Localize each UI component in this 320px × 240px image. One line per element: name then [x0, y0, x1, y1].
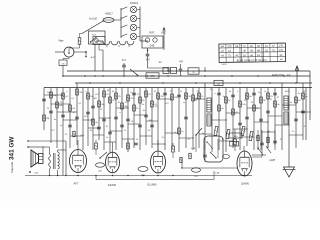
- fuse Si2: [171, 68, 177, 74]
- svg-text:(1M(4): (1M(4): [241, 182, 249, 186]
- svg-text:BL 4B 1A 8E 47 2K 5A 18 4: BL 4B 1A 8E 47 2K 5A 18 4: [237, 59, 267, 62]
- switch box N: [188, 68, 199, 74]
- capacitor C30: [259, 118, 263, 120]
- wire V29: [218, 88, 220, 151]
- wire grid row drop: [181, 158, 183, 168]
- capacitor C11: [91, 105, 95, 107]
- wire V36: [267, 88, 269, 149]
- resistor R25: [218, 105, 221, 111]
- wire V24: [185, 88, 187, 149]
- resistor slanted RS3: [241, 126, 245, 135]
- wire V11: [103, 88, 105, 151]
- antenna coil oval: [103, 18, 114, 23]
- wire V19: [151, 88, 153, 149]
- wire left vertical: [65, 141, 67, 176]
- resistor R24: [198, 93, 201, 99]
- svg-text:≈AMP: ≈AMP: [269, 159, 276, 162]
- mains plug arrow: [284, 167, 295, 177]
- link wire L35: [63, 119, 77, 121]
- wire V41: [302, 83, 304, 140]
- small box on bus 3: [214, 80, 223, 85]
- resistor R5: [69, 105, 72, 111]
- wire V15: [127, 88, 129, 153]
- link wire L22: [212, 119, 226, 121]
- link wire L31: [275, 124, 289, 126]
- wire jack cap down: [68, 57, 70, 59]
- wire above V2: [112, 142, 114, 152]
- resistor R9: [98, 101, 101, 107]
- svg-text:1M: 1M: [93, 98, 96, 100]
- trimmer capacitor T3: [130, 24, 136, 30]
- capacitor C32: [273, 92, 277, 94]
- wire V22: [171, 88, 173, 151]
- wire filter row to bus: [147, 56, 149, 68]
- link wire L11: [122, 138, 134, 140]
- wire V16: [133, 88, 135, 149]
- capacitor C20: [144, 114, 148, 116]
- wire right column d: [274, 130, 276, 150]
- wire coil to selector: [114, 19, 121, 21]
- wire TA down: [98, 45, 100, 51]
- wire V32: [239, 88, 241, 151]
- svg-text:1Ω: 1Ω: [217, 84, 220, 86]
- wire filter bottom cap: [147, 48, 149, 54]
- link wire L20: [193, 98, 205, 100]
- wire S3 down: [195, 135, 197, 152]
- link wire L10: [116, 107, 128, 109]
- svg-text:175: 175: [279, 44, 284, 47]
- antenna lead-in: [82, 21, 104, 34]
- resistor R26: [225, 97, 228, 103]
- oscillator coil humps: [103, 41, 134, 45]
- loudspeaker cone: [31, 150, 39, 167]
- IF transformer Tr2 secondary: [284, 112, 288, 124]
- capacitor C28: [245, 116, 249, 118]
- wire band box down: [94, 44, 96, 71]
- capacitor C12: [97, 126, 101, 128]
- svg-text:175: 175: [227, 45, 232, 48]
- selector box: [204, 136, 223, 162]
- link wire L9: [110, 130, 122, 132]
- svg-text:EAT.: EAT.: [149, 31, 155, 35]
- screen resistor of V2: [127, 143, 130, 149]
- capacitor C13: [102, 118, 106, 120]
- wire V3: [56, 88, 58, 149]
- resistor R27: [232, 109, 235, 115]
- dot label bottom left: [29, 171, 31, 173]
- svg-text:Wae: Wae: [58, 40, 64, 43]
- resistor R14: [127, 95, 130, 101]
- capacitor C23: [177, 94, 181, 96]
- bus wire 4: [44, 87, 312, 89]
- IF transformer Tr1 secondary: [207, 114, 211, 126]
- resistor above V1: [73, 131, 75, 137]
- capacitor C29: [252, 92, 256, 94]
- svg-text:1M: 1M: [174, 97, 177, 99]
- capacitor 417 under filter: [146, 53, 150, 55]
- link wire L3: [57, 111, 77, 113]
- resistor R17: [145, 91, 148, 97]
- svg-text:4,4B: 4,4B: [191, 148, 196, 150]
- bus junction dots: [62, 75, 64, 77]
- link wire L32: [282, 104, 296, 106]
- resistor above V4: [234, 139, 237, 145]
- svg-text:1M: 1M: [53, 95, 56, 97]
- link wire L27: [247, 107, 261, 109]
- EAT arrow wire: [163, 28, 165, 50]
- bus tick at 205: [204, 67, 206, 71]
- wave band switch box: [89, 31, 106, 44]
- resistor R52: [267, 137, 269, 143]
- antenna jack socket: [64, 47, 74, 57]
- wire above V1: [77, 140, 79, 150]
- wire Wa to jack: [79, 45, 81, 49]
- svg-text:AF7: AF7: [74, 182, 79, 186]
- capacitor C27: [238, 122, 242, 124]
- resistor R10: [103, 91, 106, 97]
- svg-text:EF/M0: EF/M0: [108, 183, 116, 187]
- IF transformer Tr1 primary: [207, 98, 211, 112]
- capacitor C26: [231, 94, 235, 96]
- svg-text:Ant.150: Ant.150: [89, 18, 98, 21]
- wire V5: [69, 88, 71, 149]
- resistor R4: [62, 93, 65, 99]
- resistor R18: [151, 101, 154, 107]
- capacitor C34: [301, 110, 305, 112]
- wire V39: [288, 88, 290, 131]
- resistor R19: [157, 93, 160, 99]
- grid cap coupling V3: [134, 142, 138, 144]
- wire V38: [281, 83, 283, 150]
- wire V12: [109, 88, 111, 153]
- link wire L6: [93, 134, 104, 136]
- trimmer capacitor T4: [130, 33, 136, 39]
- capacitor C22: [163, 92, 167, 94]
- arrow to rectifier: [296, 67, 298, 84]
- link wire L36: [70, 135, 83, 137]
- resistor slanted RS1: [214, 126, 218, 135]
- wire selector to coil row: [140, 40, 148, 42]
- wire V40: [295, 88, 297, 149]
- capacitor C24: [184, 116, 188, 118]
- resistor R20: [171, 94, 174, 100]
- selector contact arm 1: [121, 7, 127, 10]
- label: set name Imperial 341 GW: [9, 136, 16, 173]
- trimmer capacitor T1: [130, 6, 136, 12]
- capacitor C25: [217, 92, 221, 94]
- svg-text:341 GW: 341 GW: [9, 136, 16, 160]
- link wire L28: [254, 121, 268, 123]
- wire Wa top: [79, 34, 81, 38]
- wire V28: [211, 88, 213, 153]
- tube socket data table: [219, 43, 286, 62]
- resistor Wa: [78, 38, 81, 45]
- wire V4: [62, 88, 64, 176]
- resistor box on bus 570: [146, 73, 159, 78]
- wire tube4 top: [243, 146, 245, 151]
- capacitor C5: [42, 98, 46, 100]
- wire V27: [204, 83, 206, 150]
- loudspeaker magnet: [39, 154, 44, 164]
- wire grid row: [182, 167, 237, 169]
- selector rail right: [139, 7, 141, 42]
- resistor R13: [121, 103, 124, 109]
- wire V31: [232, 88, 234, 149]
- link wire L1: [44, 94, 63, 96]
- selector rail left: [120, 8, 122, 38]
- link wire L18: [165, 132, 179, 134]
- svg-text:1,4B: 1,4B: [215, 173, 220, 175]
- tube V2 EBF: [106, 152, 120, 173]
- wire V2: [50, 88, 52, 144]
- resistor R3: [56, 102, 59, 108]
- resistor R33: [274, 101, 277, 107]
- selector box contact 1: [207, 142, 213, 149]
- link wire L2: [51, 103, 70, 105]
- link wire L14: [140, 135, 152, 137]
- wire right column a: [257, 130, 259, 150]
- wire right column b: [261, 130, 263, 152]
- resistor R2: [43, 115, 46, 121]
- resistor R8: [92, 119, 95, 125]
- chassis dots: [49, 175, 50, 176]
- wire V34: [253, 88, 255, 151]
- wire V17: [139, 88, 141, 151]
- svg-text:5&1B: 5&1B: [221, 64, 227, 66]
- switch right of V4: [258, 148, 263, 155]
- link wire L23: [219, 140, 233, 142]
- resistor R15: [133, 105, 136, 111]
- resistor R28: [239, 101, 242, 107]
- IF transformer Tr2 primary: [284, 96, 288, 110]
- wire jack right: [74, 51, 86, 53]
- wire V37: [274, 88, 276, 146]
- svg-text:Imperial: Imperial: [10, 162, 14, 173]
- right edge wire 2: [305, 88, 307, 141]
- coupling capacitor C50: [203, 154, 207, 156]
- link wire L29: [261, 131, 275, 133]
- wire V1: [43, 88, 45, 131]
- wire V25: [192, 88, 194, 151]
- oval under selector: [192, 168, 201, 172]
- link wire L12: [128, 123, 140, 125]
- capacitor C51: [260, 142, 264, 144]
- wire V8: [87, 88, 89, 147]
- capacitor C8: [68, 124, 72, 126]
- capacitor C14: [108, 131, 112, 133]
- svg-text:A7S: A7S: [81, 134, 85, 137]
- resistor R23: [192, 95, 195, 101]
- link wire L5: [88, 127, 99, 129]
- oval cap near V3: [138, 167, 148, 172]
- resistor right of V3: [172, 146, 175, 152]
- capacitor C2 on bus: [122, 64, 126, 66]
- link wire L13: [134, 114, 146, 116]
- link wire L21: [199, 133, 212, 135]
- resistor R29: [246, 93, 249, 99]
- resistor R11: [109, 97, 112, 103]
- link wire L4: [83, 119, 93, 121]
- svg-text:570: 570: [151, 75, 156, 78]
- small resistor V3 anode: [180, 158, 182, 163]
- chassis bottom wire: [25, 175, 252, 177]
- lower link wire: [96, 179, 214, 181]
- capacitor C52: [273, 140, 277, 142]
- wire speaker mid: [28, 146, 44, 148]
- link wire L34: [296, 111, 310, 113]
- wire V20: [157, 88, 159, 151]
- link wire L30: [268, 115, 282, 117]
- capacitor C21: [150, 124, 154, 126]
- selector box contact 2: [210, 152, 216, 158]
- wire V6: [76, 83, 78, 145]
- resistor R35: [302, 93, 305, 99]
- resistor R1: [50, 92, 53, 98]
- transformer core: [53, 153, 55, 169]
- capacitor 478 on bus: [180, 64, 182, 69]
- wire V14: [121, 88, 123, 149]
- box D2B above V4: [230, 142, 239, 147]
- switch right of V4 b: [266, 146, 271, 153]
- wire V30: [225, 88, 227, 153]
- output transformer winding: [58, 152, 60, 169]
- wire V9: [92, 88, 94, 151]
- svg-text:D2B: D2B: [232, 144, 237, 146]
- switch at V2 grid: [100, 152, 107, 158]
- wire V33: [246, 88, 248, 147]
- right edge wire: [309, 71, 311, 120]
- link wire L15: [146, 120, 158, 122]
- tube V4 rectifier AL4: [237, 151, 252, 176]
- resistor R34: [295, 97, 298, 103]
- svg-text:175: 175: [279, 49, 284, 52]
- resistor R6: [76, 89, 79, 95]
- svg-text:2M: 2M: [46, 118, 49, 120]
- coupler box TA: [93, 37, 105, 45]
- coil row input wire: [96, 40, 103, 42]
- wire V26: [198, 88, 200, 149]
- capacitor C6: [49, 110, 53, 112]
- resistor slanted RS2: [226, 129, 230, 138]
- svg-text:N: N: [193, 71, 195, 74]
- wire to speaker top: [28, 140, 66, 142]
- tube V3 output EL: [151, 151, 166, 173]
- capacitor C19: [138, 124, 142, 126]
- capacitor C15: [114, 116, 118, 118]
- bus wire 1: [67, 70, 310, 72]
- tube V1 AF7: [70, 150, 87, 173]
- selector contact arm 2: [121, 16, 127, 19]
- svg-text:4/8517: 4/8517: [105, 13, 113, 16]
- resistor R7: [87, 93, 90, 99]
- cathode resistor of V1: [95, 143, 98, 149]
- wire V21: [164, 88, 166, 151]
- svg-text:a-M: a-M: [34, 173, 38, 175]
- resistor R50: [189, 153, 191, 159]
- capacitor C7: [61, 114, 65, 116]
- resistor R31: [260, 97, 263, 103]
- fuse Si1: [163, 68, 169, 74]
- resistor R32: [267, 93, 270, 99]
- wire V10: [98, 88, 100, 141]
- svg-text:417: 417: [122, 59, 127, 62]
- capacitor C18: [132, 92, 136, 94]
- bus wire 3: [75, 82, 312, 84]
- link wire L25: [233, 128, 247, 130]
- capacitor C10: [86, 111, 90, 113]
- wire tube4 right: [252, 156, 262, 158]
- selector contact arm 3: [121, 25, 127, 28]
- wire V35: [260, 88, 262, 151]
- link wire L8: [104, 141, 116, 143]
- resistor R12: [115, 93, 118, 99]
- capacitor C31: [266, 110, 270, 112]
- link wire L33: [289, 134, 303, 136]
- filter box D4B: [142, 36, 163, 48]
- speaker cluster wires: [42, 147, 44, 155]
- resistor R16: [139, 97, 142, 103]
- selector box inner wire: [217, 139, 219, 158]
- svg-text:417: 417: [146, 59, 151, 62]
- capacitor C17: [126, 118, 130, 120]
- link wire L26: [240, 136, 254, 138]
- oval electrolytic near V2: [96, 163, 105, 167]
- resistor slanted RS4: [249, 131, 253, 140]
- link wire L7: [99, 117, 110, 119]
- wire V4 to right: [252, 154, 266, 156]
- mains lead down: [288, 130, 290, 167]
- selector contact arm 4: [121, 34, 127, 37]
- bus wire 2: [63, 75, 310, 77]
- wire V23: [178, 88, 180, 153]
- link wire L24: [226, 112, 240, 114]
- wire right column c: [267, 130, 269, 148]
- svg-text:D4B: D4B: [150, 44, 155, 47]
- link wire L19: [179, 137, 193, 139]
- oval near selector: [223, 155, 230, 159]
- wire V18: [145, 88, 147, 146]
- capacitor C33: [294, 118, 298, 120]
- resistor R30: [253, 105, 256, 111]
- wire V7: [82, 88, 84, 151]
- wire V13: [115, 88, 117, 151]
- tuning arrow near bus: [130, 69, 138, 76]
- capacitor C9: [75, 116, 79, 118]
- resistor R21: [178, 128, 181, 134]
- svg-text:4/5216: 4/5216: [130, 1, 139, 5]
- speaker wavy resistor: [49, 154, 51, 169]
- capacitor C16: [120, 124, 124, 126]
- svg-text:1M: 1M: [148, 120, 151, 122]
- switch contact in box: [91, 37, 98, 43]
- wire above V4: [234, 129, 236, 139]
- wire jack drop dot: [85, 52, 87, 56]
- link wire L16: [152, 143, 165, 145]
- resistor R22: [185, 93, 188, 99]
- link wire L17: [158, 98, 172, 100]
- switch S3: [196, 128, 202, 135]
- capacitor box under jack: [59, 60, 67, 66]
- wire above V3: [157, 140, 159, 151]
- trimmer capacitor T2: [130, 15, 136, 21]
- resistor R51: [257, 135, 259, 141]
- svg-text:EL/AB0: EL/AB0: [147, 183, 157, 187]
